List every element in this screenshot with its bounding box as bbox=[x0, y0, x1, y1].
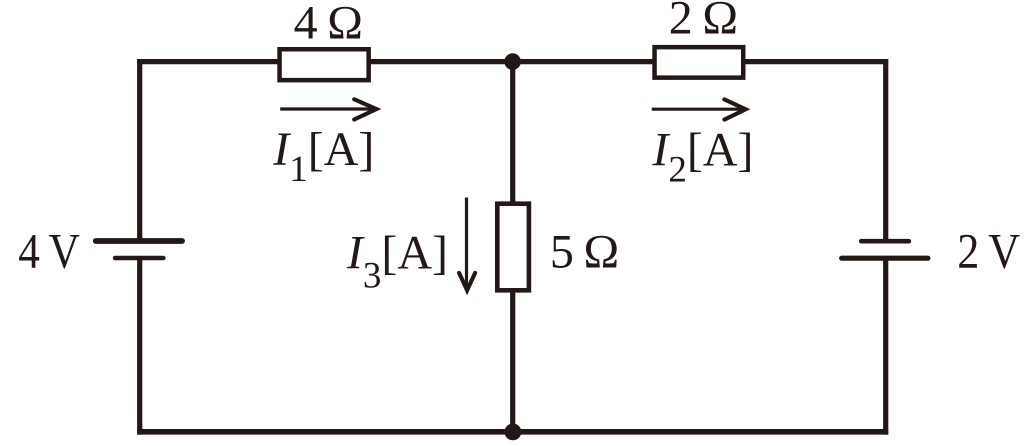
resistor R1 4ohm box bbox=[280, 49, 369, 80]
wire right vertical upper bbox=[883, 59, 888, 241]
arrow I2 current direction bbox=[652, 99, 746, 119]
node bottom junction dot bbox=[505, 424, 522, 441]
wire left vertical upper bbox=[137, 59, 142, 241]
svg-text:4 V: 4 V bbox=[18, 223, 80, 279]
wire left vertical lower bbox=[137, 258, 142, 435]
label 2 V bbox=[957, 224, 1020, 279]
svg-text:2 Ω: 2 Ω bbox=[669, 0, 738, 45]
svg-text:2 V: 2 V bbox=[957, 224, 1020, 279]
battery V2 long plate bbox=[842, 256, 928, 261]
wire top horizontal bbox=[137, 59, 888, 64]
resistor R3 5ohm box vertical bbox=[497, 204, 529, 291]
wire middle vertical bbox=[510, 62, 515, 432]
battery V1 short plate bbox=[115, 256, 163, 261]
wire right vertical lower bbox=[883, 258, 888, 434]
resistor R2 2ohm box bbox=[655, 47, 744, 78]
battery V2 short plate bbox=[861, 239, 909, 244]
svg-text:5 Ω: 5 Ω bbox=[550, 226, 619, 279]
wire bottom horizontal bbox=[137, 429, 888, 435]
node top junction dot bbox=[504, 53, 521, 70]
arrow I1 current direction bbox=[280, 99, 376, 119]
svg-text:4 Ω: 4 Ω bbox=[294, 0, 363, 49]
label 4 V bbox=[18, 223, 80, 279]
battery V1 long plate bbox=[96, 238, 182, 244]
arrow I3 current direction bbox=[459, 198, 475, 291]
